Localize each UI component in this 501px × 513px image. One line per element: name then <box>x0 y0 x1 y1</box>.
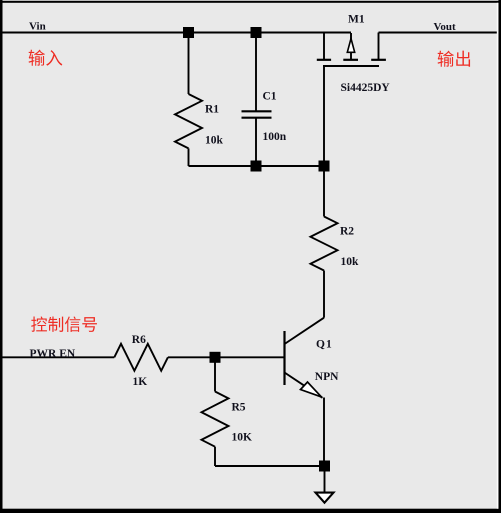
svg-text:10K: 10K <box>232 431 253 443</box>
svg-text:1K: 1K <box>133 376 148 388</box>
svg-text:NPN: NPN <box>315 371 339 383</box>
svg-text:R2: R2 <box>340 225 354 237</box>
node junction J5 (R6/R5/base) <box>210 352 221 363</box>
resistor R5 <box>202 357 229 466</box>
resistor R2 <box>311 166 338 318</box>
wire PWR EN rail <box>2 356 114 358</box>
svg-text:100n: 100n <box>263 131 287 143</box>
wire Vin top rail <box>2 32 351 34</box>
red label red text shuru (input) <box>29 50 63 66</box>
node junction J4 (gate node) <box>319 161 330 172</box>
node junction J3 (C1 bottom) <box>251 161 262 172</box>
red label red text kongzhi xinhao (control signal) <box>31 316 97 332</box>
wire M1 gate lead down <box>323 65 325 166</box>
svg-text:10k: 10k <box>341 256 360 268</box>
svg-text:Vin: Vin <box>29 21 46 33</box>
wire Q1 emitter down <box>323 398 325 467</box>
svg-text:C1: C1 <box>263 90 277 102</box>
svg-text:Vout: Vout <box>434 21 457 33</box>
svg-text:M1: M1 <box>348 13 365 25</box>
svg-text:10k: 10k <box>205 135 224 147</box>
transistor Q1 NPN <box>285 318 325 398</box>
svg-text:R1: R1 <box>205 103 219 115</box>
node junction J1 (Vin/R1) <box>183 27 194 38</box>
frame inner white lines <box>497 3 499 509</box>
node junction J2 (Vin/C1) <box>251 27 262 38</box>
svg-text:PWR EN: PWR EN <box>30 348 76 360</box>
svg-text:Q1: Q1 <box>316 339 333 351</box>
svg-text:R5: R5 <box>232 401 246 413</box>
svg-text:Si4425DY: Si4425DY <box>341 82 391 94</box>
resistor R6 <box>114 344 168 371</box>
svg-text:R6: R6 <box>132 334 146 346</box>
ground <box>316 466 334 503</box>
resistor R1 <box>175 33 202 166</box>
red label red text shuchu (output) <box>438 51 470 67</box>
transistor M1 P-MOSFET Si4425DY <box>317 33 386 67</box>
wire R1/C1 bottom to gate node <box>189 165 325 167</box>
capacitor C1 <box>242 33 272 166</box>
wire M1 drain to Vout <box>379 32 498 34</box>
wire R5 bottom to emitter node <box>215 465 325 467</box>
node junction J6 (emitter/R5/ground) <box>319 461 330 472</box>
wire R6 to Q1 base <box>168 356 284 358</box>
